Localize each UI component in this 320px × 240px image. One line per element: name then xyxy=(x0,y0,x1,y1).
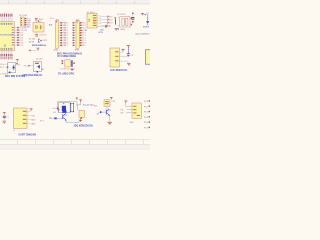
svg-text:P3.2: P3.2 xyxy=(24,66,28,68)
filter polarity mark xyxy=(71,68,73,70)
svg-text:C3 10uF: C3 10uF xyxy=(39,34,47,36)
svg-text:JP16: JP16 xyxy=(54,50,58,52)
svg-text:JDQ-5V JDQ: JDQ-5V JDQ xyxy=(83,104,95,106)
svg-text:LS2: LS2 xyxy=(112,101,115,103)
MCU bottom pins xyxy=(1,51,12,54)
crystal bottom pin and cap C3 xyxy=(35,32,47,36)
right net flags column xyxy=(144,100,150,129)
filter cap bar xyxy=(71,60,72,67)
svg-text:STC89C52RC: STC89C52RC xyxy=(0,35,14,37)
relay small box xyxy=(79,110,84,119)
svg-text:P4 CON4: P4 CON4 xyxy=(19,15,27,17)
svg-text:P3.7: P3.7 xyxy=(0,67,4,69)
svg-text:IN1: IN1 xyxy=(121,109,124,111)
svg-text:D6 LED: D6 LED xyxy=(36,58,43,60)
top frame line xyxy=(0,3,150,5)
relay vcc wires xyxy=(77,102,81,111)
DIP switch row5 diode and label xyxy=(105,26,110,29)
serial connector pins xyxy=(27,112,31,124)
header JP2 right pins xyxy=(80,22,86,47)
right connector box xyxy=(132,103,141,118)
relay transistor Q1 xyxy=(62,113,67,120)
sub-circuit 1 VCC xyxy=(16,59,19,61)
svg-text:P10: P10 xyxy=(130,122,133,124)
filter yellow box xyxy=(65,60,70,67)
LCD ground xyxy=(127,63,130,66)
svg-text:P3.7: P3.7 xyxy=(64,45,68,47)
filter right pad xyxy=(73,62,75,64)
svg-text:FMQ BAOJING DL: FMQ BAOJING DL xyxy=(23,74,44,77)
svg-text:DY ZHISHI DENG: DY ZHISHI DENG xyxy=(58,56,77,58)
relay emitter rail xyxy=(66,119,79,123)
VCC cap gnd cluster : ground xyxy=(3,121,6,124)
relay polarity mark xyxy=(79,119,81,121)
svg-text:IN5819: IN5819 xyxy=(143,27,149,29)
relay flyback diode xyxy=(62,110,66,112)
power port VCC top right xyxy=(141,13,144,15)
input fuse xyxy=(143,13,149,16)
svg-text:GND: GND xyxy=(31,123,36,125)
relay left pad xyxy=(53,107,59,109)
VCC cap gnd cluster bottom-left : VCC xyxy=(3,112,6,114)
svg-text:Input:7-40VDC GND: Input:7-40VDC GND xyxy=(136,33,151,36)
svg-text:JP16: JP16 xyxy=(75,50,79,52)
LCD pins xyxy=(119,52,128,61)
relay contacts xyxy=(70,103,74,112)
MCU right pin pads and net labels xyxy=(17,27,28,47)
diode row 1 xyxy=(101,16,113,19)
svg-text:P0.0: P0.0 xyxy=(50,18,54,20)
MCU U1 inner top pin-name text xyxy=(1,23,13,25)
buzzer transistor Q2 xyxy=(106,106,111,116)
header JP1 strip xyxy=(55,19,58,48)
svg-text:UART TONGXIN: UART TONGXIN xyxy=(19,133,37,136)
relay top rail xyxy=(58,102,78,110)
svg-text:S1: S1 xyxy=(85,30,87,32)
MCU top pins xyxy=(1,17,12,22)
svg-text:P2.3: P2.3 xyxy=(40,120,44,122)
header JP1 pins xyxy=(59,22,67,47)
svg-text:P1.7: P1.7 xyxy=(19,45,23,47)
svg-text:IN2: IN2 xyxy=(121,113,124,115)
svg-text:RXD: RXD xyxy=(31,119,36,121)
bottom frame line 2 xyxy=(0,143,150,146)
svg-text:D3: D3 xyxy=(110,22,112,24)
svg-text:CON4: CON4 xyxy=(24,26,29,28)
svg-text:P3.1: P3.1 xyxy=(144,106,148,108)
svg-text:Q1: Q1 xyxy=(65,115,67,117)
filter left pads xyxy=(62,60,64,64)
top zone ticks xyxy=(8,1,135,4)
right edge connector xyxy=(145,50,150,64)
opto left pads xyxy=(114,17,120,26)
bottom margin band xyxy=(0,145,150,150)
VCC cap gnd cluster : cap xyxy=(3,114,9,120)
svg-text:U3 PC817: U3 PC817 xyxy=(117,14,126,16)
sub-circuit 1 box xyxy=(8,63,16,73)
svg-text:C7: C7 xyxy=(130,23,132,25)
svg-text:C5 104 C6 470uF: C5 104 C6 470uF xyxy=(60,68,76,70)
LCD box xyxy=(110,48,119,67)
sub-circuit 1 right pad xyxy=(16,63,17,64)
MCU top net labels xyxy=(0,13,12,16)
svg-text:LED: LED xyxy=(100,30,104,32)
header P1 pins xyxy=(25,18,32,27)
svg-text:x4: x4 xyxy=(99,23,101,25)
header P1 (above MCU right) xyxy=(19,15,27,26)
buzzer base wire with arrow xyxy=(98,111,106,113)
diode row 4 xyxy=(101,25,112,28)
svg-text:DY LVBO CIRC: DY LVBO CIRC xyxy=(58,74,75,76)
LCD VCC xyxy=(122,49,125,51)
sub-circuit 1 left labels xyxy=(0,64,8,69)
MCU right pins xyxy=(14,28,17,45)
svg-text:P3.5: P3.5 xyxy=(82,45,86,47)
svg-text:R10: R10 xyxy=(94,105,97,107)
sub-circuit 1 diode xyxy=(13,65,16,71)
sub-circuit 2 speaker xyxy=(36,65,40,69)
reset pad and label xyxy=(40,40,47,42)
relay contact VCC xyxy=(76,98,79,100)
relay VCC port xyxy=(79,100,82,102)
LCD wire to VCC xyxy=(122,50,124,53)
sub-circuit 2 resistor xyxy=(35,63,39,64)
opto cluster box xyxy=(120,17,130,27)
serial connector VCC xyxy=(30,109,33,111)
relay coil dot xyxy=(62,103,65,104)
reset left wire and pad xyxy=(29,50,36,51)
svg-text:C9: C9 xyxy=(6,117,8,119)
LCD cap xyxy=(127,48,133,57)
header JP2 strip xyxy=(76,19,79,48)
svg-text:Q2: Q2 xyxy=(109,110,111,112)
right connector wires xyxy=(126,103,132,113)
svg-text:P3.2: P3.2 xyxy=(144,112,148,114)
svg-text:B1: B1 xyxy=(42,69,44,71)
svg-text:P3.3: P3.3 xyxy=(144,117,148,119)
svg-text:P3.5: P3.5 xyxy=(144,128,148,130)
DIP switch box xyxy=(87,13,97,28)
buzzer VCC xyxy=(110,97,113,99)
buzzer emitter wire xyxy=(109,116,111,122)
svg-text:D4: D4 xyxy=(109,25,111,27)
opto ground xyxy=(115,28,118,30)
svg-text:JDQ KONGZHI DL: JDQ KONGZHI DL xyxy=(74,126,94,128)
opto right pads xyxy=(131,18,133,26)
serial connector box xyxy=(13,108,27,128)
svg-text:R8: R8 xyxy=(49,117,51,119)
bottom zone ticks xyxy=(17,140,144,145)
svg-text:LCD JIEKOU DL: LCD JIEKOU DL xyxy=(110,70,128,72)
diode row 3 xyxy=(101,22,113,25)
reset transistor symbol xyxy=(38,39,40,43)
relay base wire xyxy=(49,117,62,119)
buzzer ground xyxy=(107,122,112,125)
MCU U1 inner right pin-name text xyxy=(12,27,14,45)
DIP switch right pins xyxy=(97,15,105,26)
bottom frame line 1 xyxy=(0,138,150,141)
LCD VCC 2 xyxy=(127,45,130,48)
reset ground xyxy=(36,48,39,51)
svg-text:L1: L1 xyxy=(147,13,149,15)
svg-text:RST1: RST1 xyxy=(43,40,48,42)
svg-text:GND1: GND1 xyxy=(120,29,125,31)
sub-circuit 1 wire from VCC xyxy=(16,61,18,63)
svg-text:P3.4: P3.4 xyxy=(144,122,148,124)
svg-text:J1: J1 xyxy=(13,130,15,132)
buzzer box xyxy=(104,100,110,106)
diode row 2 xyxy=(101,19,113,22)
svg-text:R2 1K: R2 1K xyxy=(29,41,35,43)
crystal box Y1 xyxy=(33,21,44,32)
relay VCC small xyxy=(57,110,59,112)
MCU bottom net labels xyxy=(1,54,13,60)
crystal block cap above xyxy=(35,18,44,22)
top margin band xyxy=(0,0,150,4)
electrolytic cap C7 xyxy=(130,13,134,26)
relay box outline xyxy=(59,103,71,113)
svg-text:RST/FUWEI-DL: RST/FUWEI-DL xyxy=(32,45,47,47)
sheet background xyxy=(0,0,150,150)
svg-text:R1 10K: R1 10K xyxy=(29,38,36,40)
right connector VCC xyxy=(124,101,127,103)
svg-text:TXD: TXD xyxy=(31,115,35,117)
sub-circuit 1 bottom pad xyxy=(9,72,11,74)
svg-text:P3.0: P3.0 xyxy=(144,101,148,103)
sub-circuit 2 left label xyxy=(24,65,34,68)
MCU U1 body xyxy=(0,22,14,51)
svg-text:4PIN: 4PIN xyxy=(99,32,104,34)
header JP2 left pins xyxy=(64,22,76,47)
svg-text:C8: C8 xyxy=(131,55,133,57)
serial connector row labels xyxy=(31,115,36,125)
input diode xyxy=(146,15,149,26)
svg-text:K1: K1 xyxy=(54,112,56,114)
relay coil xyxy=(62,106,66,111)
svg-text:R3: R3 xyxy=(18,65,20,67)
sub-circuit 2 box xyxy=(34,62,42,72)
svg-text:D1: D1 xyxy=(110,16,112,18)
svg-text:D2: D2 xyxy=(110,19,112,21)
sub-circuit 2 bottom pad xyxy=(37,71,39,73)
MCU U1 inner bottom pin-name text xyxy=(1,44,13,50)
svg-text:P3.6: P3.6 xyxy=(0,64,4,66)
opto below text xyxy=(118,28,119,29)
